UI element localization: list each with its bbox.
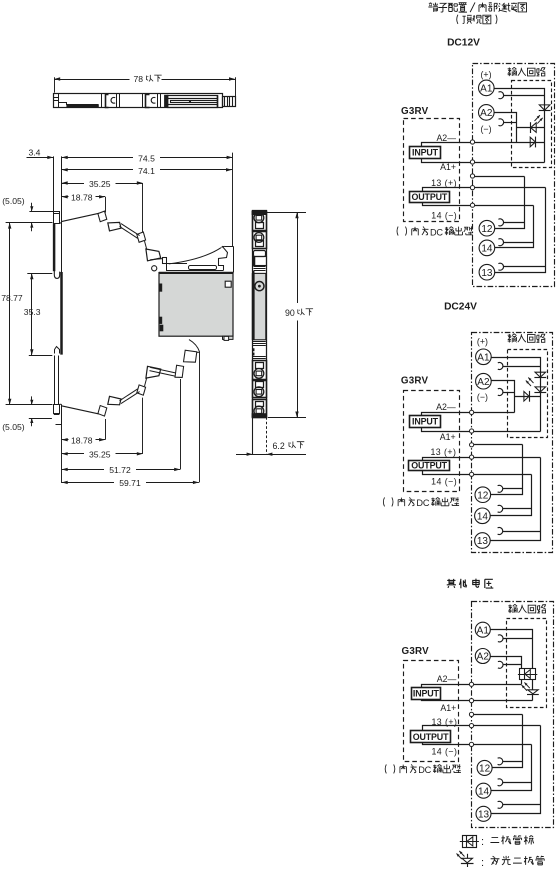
title 端子配置/内部连接图	[428, 2, 526, 12]
svg-text:35.25: 35.25	[89, 179, 111, 189]
dimension 51.72	[62, 379, 181, 475]
svg-text:6.2: 6.2	[273, 441, 285, 451]
svg-text:13 (+): 13 (+)	[431, 178, 457, 188]
svg-text:INPUT: INPUT	[412, 148, 439, 158]
wire contact 12	[473, 176, 525, 178]
svg-text:DC: DC	[430, 227, 443, 237]
terminal 14	[479, 240, 495, 256]
relay outline box (chain)	[472, 602, 554, 828]
subtitle （顶视图）	[457, 15, 497, 24]
terminal A2	[475, 649, 490, 664]
INPUT box	[412, 688, 441, 700]
label A1+	[440, 703, 456, 713]
svg-text:12: 12	[477, 490, 489, 501]
wire A2 contact	[504, 664, 522, 666]
svg-text:12: 12	[479, 764, 491, 775]
input circuit dashed box	[512, 81, 552, 168]
svg-text:3.4: 3.4	[29, 147, 41, 157]
dimension 18.78 top	[62, 192, 106, 212]
wire contact 12	[472, 714, 523, 716]
wire terminal 12	[495, 177, 525, 229]
dimension (5.05) top	[2, 196, 53, 231]
dimension 74.5	[62, 153, 233, 246]
input circuit dashed box	[507, 619, 547, 708]
label 14 (-)	[431, 747, 457, 757]
wire A1 contact	[504, 638, 533, 640]
dimension 35.3	[24, 273, 53, 355]
legend text 发光二极管	[481, 856, 544, 869]
node 3	[469, 712, 473, 716]
wire terminal 12	[493, 715, 523, 768]
wire A2 feed	[491, 657, 522, 669]
wire A2- from INPUT	[422, 685, 522, 688]
socket front lower corner	[189, 340, 200, 483]
svg-text:DC12V: DC12V	[447, 38, 480, 49]
svg-text:13: 13	[478, 809, 490, 820]
label A2-	[436, 402, 456, 412]
front view terminal block	[253, 381, 267, 398]
svg-text:A1+: A1+	[440, 162, 456, 172]
node 4	[470, 186, 474, 190]
input circuit dashed box	[508, 350, 548, 438]
contact arc 14	[498, 505, 503, 512]
terminal A2	[476, 373, 492, 389]
contact arc A2	[498, 389, 503, 396]
svg-text:A2: A2	[477, 377, 490, 388]
node 2	[470, 429, 474, 433]
top view end cap	[223, 97, 236, 107]
contact arc A1	[498, 362, 503, 369]
OUTPUT box	[411, 731, 451, 743]
dimension 35.25 bottom	[62, 398, 143, 460]
wire bridge to LED	[532, 680, 534, 690]
contact arc 12	[498, 219, 503, 226]
svg-text:OUTPUT: OUTPUT	[411, 460, 447, 470]
label 14 (-)	[431, 210, 457, 220]
relay body (grey)	[159, 273, 233, 341]
front view middle section	[252, 251, 266, 274]
wire 14- from OUTPUT	[423, 203, 534, 206]
wire A2 feed	[492, 381, 515, 413]
note ( ) 内为DC输出型	[397, 226, 473, 237]
svg-text:14: 14	[481, 244, 493, 255]
front view terminal block	[253, 232, 267, 249]
node 2	[470, 160, 474, 164]
wire terminal 13	[491, 458, 541, 541]
dimension 35.25 top	[62, 179, 143, 232]
G3RV dashed box	[404, 119, 460, 222]
svg-text:(−): (−)	[481, 124, 492, 134]
svg-text:INPUT: INPUT	[412, 417, 439, 427]
legend text 二极管桥	[481, 835, 534, 848]
svg-text:A1+: A1+	[440, 432, 456, 442]
svg-text:G3RV: G3RV	[401, 376, 429, 387]
label 13 (+)	[431, 178, 457, 188]
terminal A2	[479, 105, 495, 121]
DIN rail upper part	[54, 156, 62, 278]
note ( ) 内为DC输出型	[385, 764, 461, 775]
label A2-	[437, 674, 457, 684]
terminal 13	[475, 533, 491, 549]
front view terminal block	[253, 361, 267, 380]
svg-text:DC: DC	[416, 498, 429, 508]
svg-text:18.78: 18.78	[71, 435, 93, 445]
wire A1+ from INPUT	[422, 159, 545, 163]
svg-text:G3RV: G3RV	[401, 106, 429, 117]
top view body	[53, 93, 223, 107]
svg-text:A1: A1	[480, 84, 493, 95]
note ( ) 内为DC输出型	[383, 497, 459, 508]
svg-text::: :	[481, 857, 484, 869]
terminal 13	[476, 806, 491, 821]
G3RV label	[401, 376, 429, 387]
wire 14- from OUTPUT	[423, 743, 532, 745]
label 输入回路	[508, 67, 546, 76]
G3RV label	[401, 106, 429, 117]
contact arc A1	[498, 635, 503, 642]
svg-text:INPUT: INPUT	[413, 689, 440, 699]
LED D2	[526, 378, 546, 393]
wire terminal 12	[491, 445, 523, 495]
relay latch	[166, 246, 233, 272]
diode D3	[524, 391, 530, 402]
label (+)	[477, 336, 488, 346]
dimension 74.1	[62, 166, 232, 176]
title DC12V	[447, 38, 480, 49]
terminal A1	[479, 80, 495, 96]
top view clamp 2	[143, 93, 161, 107]
svg-text:(5.05): (5.05)	[2, 196, 25, 206]
relay outline box (chain)	[473, 64, 555, 287]
node 3	[470, 174, 474, 178]
wire terminal 14	[495, 206, 534, 248]
svg-text:12: 12	[481, 224, 493, 235]
front view louvers	[253, 342, 266, 359]
node 3	[470, 443, 474, 447]
LED D2	[531, 115, 543, 133]
svg-text:35.25: 35.25	[89, 450, 111, 460]
wire contact 12	[472, 444, 523, 446]
front view relay section (grey)	[252, 273, 266, 339]
node 2	[469, 699, 473, 703]
svg-text:74.5: 74.5	[138, 153, 155, 163]
svg-text:(+): (+)	[481, 70, 492, 80]
INPUT box	[410, 416, 441, 428]
svg-text:18.78: 18.78	[71, 192, 93, 202]
terminal 13	[479, 264, 495, 280]
node 4	[469, 724, 473, 728]
svg-text:A1+: A1+	[440, 703, 456, 713]
terminal A1	[476, 349, 492, 365]
wire A1 contact	[504, 95, 545, 97]
dimension 78以下	[54, 74, 235, 96]
DIN rail lower part	[54, 272, 63, 425]
wire terminal 14	[491, 475, 532, 516]
diode bridge DB	[518, 669, 537, 680]
G3RV label	[402, 646, 430, 657]
lower release lever	[61, 350, 199, 416]
label (-)	[477, 392, 488, 402]
svg-text:DC: DC	[418, 765, 431, 775]
svg-text:74.1: 74.1	[138, 166, 155, 176]
label 输入回路	[508, 604, 546, 613]
wire LED branch	[517, 127, 545, 129]
wire A2 contact	[503, 392, 515, 394]
wire A1+ from INPUT	[422, 428, 541, 432]
svg-text:G3RV: G3RV	[402, 646, 430, 657]
svg-text:OUTPUT: OUTPUT	[412, 192, 448, 202]
diode D3	[530, 137, 535, 148]
wire A2 contact	[504, 122, 517, 124]
contact arc 13	[498, 263, 503, 270]
wire terminal 14	[492, 745, 532, 791]
terminal A1	[475, 622, 490, 637]
INPUT box	[410, 147, 441, 159]
contact arc 14	[498, 779, 503, 786]
diode D1	[539, 105, 551, 111]
terminal 14	[476, 783, 491, 798]
label (-)	[481, 124, 492, 134]
title DC24V	[444, 302, 477, 313]
svg-text:DC24V: DC24V	[444, 302, 477, 313]
svg-text:51.72: 51.72	[109, 465, 131, 475]
svg-text:A1: A1	[477, 625, 490, 636]
svg-text:14 (−): 14 (−)	[431, 747, 457, 757]
terminal 12	[479, 220, 495, 236]
relay outline box (chain)	[472, 333, 553, 553]
front view tail	[253, 417, 267, 454]
node 1	[470, 140, 474, 144]
screw hole circle	[152, 266, 157, 271]
wire bridge to A2-	[521, 680, 523, 685]
top view clamp 1	[102, 93, 120, 107]
svg-text:A2—: A2—	[436, 133, 456, 143]
contact arc 14	[498, 239, 503, 246]
wire A2 feed	[495, 113, 517, 143]
contact arc 13	[498, 801, 503, 808]
terminal 12	[475, 487, 491, 503]
svg-text:A1: A1	[477, 352, 490, 363]
svg-text:78.77: 78.77	[1, 293, 23, 303]
node 5	[470, 472, 474, 476]
label A1+	[440, 162, 456, 172]
svg-text:14 (−): 14 (−)	[431, 477, 457, 487]
svg-text:(+): (+)	[477, 336, 488, 346]
contact arc A2	[498, 661, 503, 668]
dimension 59.71	[62, 425, 199, 489]
wire terminal 13	[495, 188, 546, 273]
dimension 90以下	[267, 212, 314, 417]
G3RV dashed box	[404, 661, 459, 762]
diode D1	[534, 372, 546, 377]
wire A2- from INPUT	[422, 413, 515, 416]
upper release lever	[61, 211, 166, 263]
label (+)	[481, 70, 492, 80]
svg-text:13: 13	[477, 536, 489, 547]
svg-text:14: 14	[477, 511, 489, 522]
contact arc 13	[498, 528, 503, 535]
node 5	[469, 742, 473, 746]
wire A1 feed	[491, 630, 533, 669]
label 13 (+)	[430, 447, 456, 457]
svg-text:A2: A2	[480, 108, 493, 119]
OUTPUT box	[410, 192, 450, 203]
node 5	[470, 203, 474, 207]
label 13 (+)	[431, 717, 457, 727]
node 1	[470, 410, 474, 414]
wire 13+ from OUTPUT	[423, 458, 541, 461]
svg-text:13: 13	[481, 268, 493, 279]
front view terminal block	[253, 400, 267, 418]
wire A1 contact	[503, 366, 541, 368]
svg-text:78: 78	[134, 74, 144, 84]
wire A1+ from INPUT	[422, 700, 533, 701]
wire A1 feed	[492, 358, 541, 432]
front view terminal block	[253, 212, 267, 231]
dimension 18.78 bottom	[62, 419, 106, 445]
svg-text:14 (−): 14 (−)	[431, 210, 457, 220]
wire 13+ from OUTPUT	[423, 188, 546, 192]
legend diode bridge symbol	[460, 836, 479, 848]
svg-text:A2: A2	[477, 652, 490, 663]
svg-text::: :	[481, 836, 484, 848]
contact arc A1	[499, 92, 504, 99]
node 1	[469, 682, 473, 686]
svg-text:90: 90	[285, 308, 295, 318]
dimension 6.2以下	[236, 441, 306, 456]
terminal 12	[477, 760, 492, 775]
wire A2- from INPUT	[422, 143, 545, 147]
legend LED symbol	[457, 851, 474, 867]
svg-text:14: 14	[478, 786, 490, 797]
svg-text:59.71: 59.71	[119, 478, 141, 488]
svg-text:OUTPUT: OUTPUT	[413, 732, 449, 742]
top view vent bars	[165, 95, 218, 107]
wire diode branch	[515, 396, 541, 398]
G3RV dashed box	[404, 391, 460, 492]
wire terminal 13	[492, 726, 541, 814]
wire A1 feed	[495, 89, 545, 163]
wire 13+ from OUTPUT	[423, 726, 541, 731]
dimension 3.4	[27, 147, 54, 159]
terminal 14	[475, 508, 491, 524]
label A1+	[440, 432, 456, 442]
front view bottom bar	[252, 414, 267, 418]
contact arc A2	[499, 119, 504, 126]
svg-text:A2—: A2—	[437, 674, 457, 684]
title 其他电压	[447, 579, 494, 589]
node 4	[470, 455, 474, 459]
dimension (5.05) bottom	[2, 396, 52, 432]
wire 14- from OUTPUT	[423, 471, 532, 475]
label 14 (-)	[431, 477, 457, 487]
label A2-	[436, 133, 456, 143]
svg-text:(5.05): (5.05)	[2, 422, 25, 432]
svg-text:A2—: A2—	[436, 402, 456, 412]
svg-text:13 (+): 13 (+)	[430, 447, 456, 457]
contact arc 12	[498, 758, 503, 765]
svg-text:(−): (−)	[477, 392, 488, 402]
dimension 78.77	[1, 223, 52, 405]
svg-text:35.3: 35.3	[24, 307, 41, 317]
label 输入回路	[508, 334, 546, 343]
LED D2	[522, 682, 539, 694]
front view strip	[252, 211, 267, 418]
wire LED to A1+	[532, 694, 534, 701]
OUTPUT box	[409, 460, 450, 470]
contact arc 12	[498, 485, 503, 492]
